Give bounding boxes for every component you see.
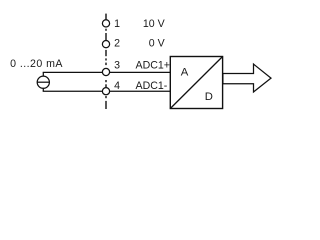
svg-text:D: D	[205, 91, 213, 103]
terminal 1	[102, 20, 109, 27]
svg-text:0 V: 0 V	[149, 37, 166, 49]
svg-text:A: A	[181, 66, 189, 78]
terminal 3	[102, 68, 109, 75]
svg-text:4: 4	[114, 80, 120, 92]
svg-text:0 ...20 mA: 0 ...20 mA	[10, 58, 63, 70]
output block arrow	[223, 64, 271, 92]
svg-text:10 V: 10 V	[143, 18, 166, 30]
A/D converter U1 box	[170, 57, 222, 109]
svg-text:1: 1	[114, 18, 120, 30]
A/D converter diagonal	[170, 57, 222, 109]
wire ADC1- (source to terminal 4 to A/D box)	[43, 90, 171, 92]
svg-text:3: 3	[114, 60, 120, 72]
dash-dot module boundary line	[105, 14, 107, 109]
svg-text:ADC1-: ADC1-	[136, 80, 168, 92]
svg-text:ADC1+: ADC1+	[136, 60, 170, 72]
current source G1 (0...20 mA)	[37, 72, 49, 91]
wire ADC1+ (source to terminal 3 to A/D box)	[43, 71, 171, 73]
svg-text:2: 2	[114, 37, 120, 49]
terminal 4	[102, 88, 109, 95]
terminal 2	[102, 41, 109, 48]
